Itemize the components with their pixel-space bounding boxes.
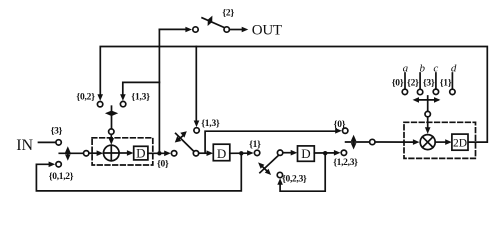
switch S2 selector arrow: [175, 131, 187, 142]
arrowhead into 2D: [445, 139, 452, 145]
node S2 pole: [171, 151, 176, 156]
arrowhead into M1 top: [425, 127, 431, 134]
adder A1: [104, 145, 120, 161]
junction node after D3: [323, 151, 327, 155]
wire adder A1 to delay D1: [119, 152, 127, 154]
node coeff c: [433, 89, 438, 94]
wire coeff d drop: [451, 73, 453, 89]
node S3 throw to D3: [277, 150, 282, 155]
node S6 pole: [425, 111, 430, 116]
wire S1 pole to adder A1: [89, 152, 97, 154]
svg-text:{3}: {3}: [51, 127, 63, 137]
node coeff a: [402, 89, 407, 94]
svg-text:D: D: [136, 146, 145, 161]
svg-text:{2}: {2}: [222, 8, 234, 18]
node S4 pole: [370, 139, 375, 144]
node S5 left: [193, 27, 198, 32]
wire D3 to S4 throw {1,2,3}: [314, 152, 334, 154]
svg-text:{0}: {0}: [334, 120, 346, 130]
svg-text:{3}: {3}: [423, 78, 435, 88]
svg-text:{0}: {0}: [157, 160, 169, 170]
arrowhead into D3: [291, 150, 298, 156]
wire S1 common stub: [59, 152, 83, 154]
node S2 throw {1,3}: [194, 128, 199, 133]
junction node after D2: [239, 151, 243, 155]
arrowhead to OUT: [242, 27, 249, 33]
wire S6 pole into multiplier M1: [427, 117, 429, 128]
wire bus drop to S2 throw {1,3}: [195, 47, 197, 122]
wire coeff a drop: [404, 73, 406, 89]
node S3 pole {1}: [254, 150, 259, 155]
svg-text:{0,1,2}: {0,1,2}: [49, 172, 74, 182]
svg-text:{1,2,3}: {1,2,3}: [333, 158, 358, 168]
delay D2: [213, 144, 230, 161]
switch S6 selector arrow (horizontal double arrow): [413, 97, 441, 103]
wire feedback D3 output to S3 throw {0,2,3}: [280, 153, 325, 191]
multiplier M1: [420, 135, 435, 150]
switch S3 blade: [260, 155, 279, 173]
dashed box stage 2: [404, 122, 476, 158]
svg-text:{0,2}: {0,2}: [76, 92, 95, 102]
svg-text:2D: 2D: [453, 138, 467, 150]
wire feedback from D2 output down and around to S1 throw {0,1,2}: [36, 153, 241, 191]
arrowhead into D1: [127, 150, 134, 156]
junction node after D1: [157, 151, 161, 155]
arrowhead into {1,3} throw: [120, 94, 126, 101]
wire S5 to OUT: [230, 29, 242, 31]
svg-text:IN: IN: [16, 137, 33, 154]
node coeff d: [450, 89, 455, 94]
wire S1b stub: [111, 106, 113, 128]
wire S4 pole to multiplier M1: [375, 141, 413, 143]
svg-text:OUT: OUT: [252, 23, 282, 39]
arrowhead into adder A1: [97, 150, 104, 156]
arrowhead into M1: [413, 139, 420, 145]
delay D3: [298, 146, 315, 161]
node S4 throw {0}: [343, 128, 348, 133]
svg-text:D: D: [217, 146, 226, 161]
arrowhead into S2 {1,3}: [194, 121, 200, 128]
wire to output switch S5: [159, 28, 185, 30]
node A1 input throw {1,3}: [120, 101, 125, 106]
svg-text:{1,3}: {1,3}: [131, 92, 150, 102]
wire OUT tap vertical: [158, 29, 160, 153]
svg-text:{1,3}: {1,3}: [201, 119, 220, 129]
node S3 throw {0,2,3}: [277, 172, 282, 177]
wire S2 throw to D2: [199, 152, 207, 154]
arrowhead up into {0,2,3}: [277, 178, 283, 185]
wire coeff c drop: [435, 73, 437, 89]
switch S2 blade: [176, 133, 194, 151]
wire 2D output to top feedback bus: [100, 47, 487, 143]
arrowhead into {0,1,2}: [49, 162, 56, 168]
wire M1 to 2D: [435, 141, 445, 143]
node coeff b: [417, 89, 422, 94]
node S2 throw to D2: [193, 151, 198, 156]
node S1 pole: [84, 151, 89, 156]
node S1 throw {3}: [56, 140, 61, 145]
arrowhead into {0,2} throw: [97, 94, 103, 101]
switch S5 blade: [202, 18, 225, 28]
node S5 right: [224, 27, 229, 32]
arrowhead into S5 left node: [185, 27, 192, 33]
wire S6 stub: [427, 96, 429, 111]
svg-text:{1}: {1}: [249, 140, 261, 150]
node S4 throw {1,2,3}: [341, 150, 346, 155]
svg-text:{0,2,3}: {0,2,3}: [282, 174, 307, 184]
arrowhead into adder top: [109, 138, 115, 145]
node S1b pole: [109, 129, 114, 134]
switch S4 selector arrow: [351, 135, 357, 150]
arrowhead into S2 pole: [164, 151, 171, 157]
wire from OUT tap to adder throw {1,3}: [123, 82, 160, 94]
switch S1 selector arrow (vertical double arrow): [65, 146, 71, 161]
delay D1: [134, 146, 148, 161]
wire IN to switch S1 throw {3}: [39, 141, 56, 143]
arrowhead into S3 pole {1}: [247, 150, 254, 156]
switch S1b selector arrow (horizontal double arrow): [105, 111, 118, 116]
node A1 input throw {0,2}: [97, 102, 102, 107]
switch S5 selector arrow: [208, 16, 213, 26]
svg-text:{2}: {2}: [407, 78, 419, 88]
wire D1 to switch S2 pole: [148, 152, 164, 154]
svg-text:{1}: {1}: [440, 78, 452, 88]
node S1 throw {0,1,2}: [56, 162, 61, 167]
wire D2 to S3 pole: [230, 152, 247, 154]
dashed box stage 1: [92, 138, 153, 165]
wire S1b pole into adder A1: [110, 135, 112, 139]
svg-text:D: D: [301, 146, 310, 161]
switch S3 selector arrow: [258, 162, 271, 175]
wire S3 to D3: [283, 152, 291, 154]
svg-text:{0}: {0}: [392, 78, 404, 88]
wire coeff b drop: [419, 73, 421, 89]
arrowhead into S4 {1,2,3}: [334, 150, 341, 156]
delay 2D: [452, 134, 468, 150]
wire S4 common stub: [346, 141, 370, 143]
arrowhead into S4 {0}: [335, 128, 342, 134]
wire D2-input tap to S4 throw {0}: [205, 131, 338, 153]
arrowhead into D2: [207, 150, 214, 156]
